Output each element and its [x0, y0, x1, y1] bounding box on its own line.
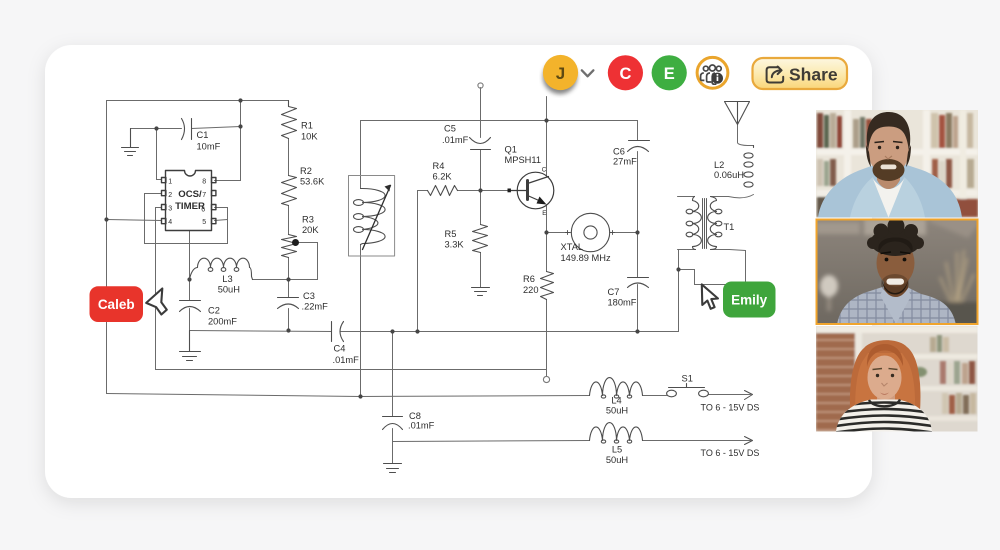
svg-text:C2: C2 [208, 306, 220, 316]
wire C5 bottom [480, 150, 482, 191]
wire L5 arrow line [643, 440, 751, 442]
avatar J shadow [543, 60, 577, 94]
svg-text:TO 6 - 15V DS: TO 6 - 15V DS [701, 448, 760, 458]
wire R1-R2 [288, 139, 290, 176]
svg-text:53.6K: 53.6K [300, 177, 325, 187]
ground near R5 [472, 288, 490, 296]
whiteboard card [45, 45, 872, 498]
svg-text:C5: C5 [444, 124, 456, 134]
svg-text:Emily: Emily [731, 293, 768, 308]
wire top rail [107, 100, 289, 102]
node junction 5 [187, 277, 191, 281]
wire collector [546, 97, 548, 176]
crystal XTAL [571, 213, 609, 251]
resistor R5 [473, 225, 488, 253]
svg-text:220: 220 [523, 285, 539, 295]
svg-text:C4: C4 [334, 344, 346, 354]
wire R3-C3 [288, 258, 290, 298]
wire T1 to L2 [729, 195, 754, 198]
svg-text:C: C [619, 65, 631, 83]
wire T1 left drop [678, 250, 680, 332]
transformer T1 right winding [708, 197, 717, 250]
transistor Q1 [508, 172, 554, 209]
svg-text:2: 2 [168, 192, 172, 199]
svg-text:C6: C6 [613, 147, 625, 157]
wire to terminal [546, 370, 548, 377]
node junction 3 [238, 124, 242, 128]
svg-text:E: E [542, 210, 546, 217]
wire mid rail left [190, 331, 332, 332]
svg-text:Share: Share [789, 65, 838, 85]
resistor R2 [282, 176, 297, 206]
svg-text:C1: C1 [197, 130, 209, 140]
name tag Caleb [90, 286, 144, 322]
resistor R4 [428, 186, 458, 196]
node junction 16 [478, 188, 482, 192]
ground near C1 [122, 129, 139, 156]
svg-text:50uH: 50uH [606, 406, 628, 416]
wire L4 to S1 [643, 395, 667, 397]
svg-text:1: 1 [168, 179, 172, 186]
resistor R1 [282, 101, 297, 139]
ground near C2 [180, 331, 201, 361]
node junction 10 [635, 329, 639, 333]
svg-text:XTAL: XTAL [561, 242, 584, 252]
svg-text:R5: R5 [445, 229, 457, 239]
node junction 9 [415, 329, 419, 333]
capacitor C1 [182, 119, 192, 140]
node junction 7 [286, 328, 290, 332]
inductor L3 [190, 258, 253, 279]
wire C1 right [192, 127, 241, 129]
svg-text:50uH: 50uH [218, 285, 240, 295]
wire to R6 [546, 233, 548, 272]
wire L1 bottom lead [360, 245, 362, 397]
wire T1 right bottom lead [711, 250, 746, 251]
video tile 2 (man, plaid shirt) [816, 218, 980, 327]
svg-text:MPSH11: MPSH11 [505, 155, 542, 165]
svg-text:C3: C3 [303, 291, 315, 301]
node junction 15 [358, 394, 362, 398]
share button [753, 58, 848, 89]
wire C1 left [131, 128, 182, 130]
svg-text:149.89 MHz: 149.89 MHz [561, 253, 611, 263]
svg-text:6.2K: 6.2K [433, 172, 453, 182]
svg-text:J: J [556, 64, 565, 83]
svg-text:E: E [664, 65, 675, 83]
node junction 4 [104, 217, 108, 221]
wire C6 top [637, 121, 639, 141]
wire pin 5 [215, 220, 228, 221]
wire C8 to L5 [393, 441, 590, 442]
svg-text:0.06uH: 0.06uH [714, 170, 744, 180]
svg-text:L2: L2 [714, 160, 724, 170]
wire C3 stem [288, 309, 290, 331]
wire pin 3 rail [156, 208, 547, 370]
switch S1 [667, 390, 677, 397]
wire to pin 8 [215, 101, 241, 181]
video tile 3 (woman, striped top) [816, 326, 978, 433]
wire C6-C7 [637, 152, 639, 278]
svg-text:Q1: Q1 [505, 145, 517, 155]
open terminal above C5 [478, 83, 483, 88]
node junction 12 [635, 230, 639, 234]
node junction 14 [676, 267, 680, 271]
transformer T1 left winding [693, 197, 702, 250]
wire L1 top lead [360, 121, 362, 189]
collaborator info icon [697, 57, 728, 88]
wire C8 ground stem [392, 429, 394, 464]
inductor L5 [590, 423, 643, 441]
node junction 11 [544, 230, 548, 234]
wire left rail [106, 101, 108, 394]
wire inner top rail [361, 120, 638, 122]
inductor L2 [753, 146, 755, 148]
resistor R3 [282, 235, 297, 258]
svg-text:50uH: 50uH [606, 455, 628, 465]
wire to XTAL left [547, 232, 572, 234]
avatar J [543, 55, 578, 90]
capacitor C5 [470, 138, 491, 150]
svg-text:20K: 20K [302, 225, 319, 235]
wire T1 secondary loop [679, 251, 746, 285]
svg-text:OCS/: OCS/ [178, 189, 202, 200]
IC U1 OCS/TIMER body [162, 171, 216, 231]
svg-text:.22mF: .22mF [302, 302, 329, 312]
wire C7 stem [637, 285, 639, 332]
wire R3 wiper loop [289, 243, 318, 280]
wire emitter [546, 206, 548, 233]
node junction 2 [154, 126, 158, 130]
svg-text:3.3K: 3.3K [445, 240, 465, 250]
node junction 8 [390, 329, 394, 333]
wire to R5 [480, 191, 482, 225]
capacitor C3 [278, 298, 299, 309]
wire T1 left top stub [678, 196, 695, 198]
svg-text:200mF: 200mF [208, 317, 237, 327]
capacitor C2 [180, 301, 201, 312]
svg-text:.01mF: .01mF [333, 355, 360, 365]
variable inductor L1 shield box [349, 176, 395, 257]
svg-text:.01mF: .01mF [408, 421, 435, 431]
node junction 6 [286, 277, 290, 281]
wire R4 left lead [418, 190, 428, 192]
inductor L4 [590, 378, 643, 396]
variable inductor L1 arrow [363, 186, 391, 250]
capacitor C4 [332, 322, 344, 342]
wire L3 to R3 node [253, 279, 289, 281]
svg-text:5: 5 [202, 219, 206, 226]
avatar C [608, 55, 643, 90]
svg-text:R4: R4 [433, 161, 445, 171]
svg-text:6: 6 [201, 207, 205, 214]
capacitor C8 [383, 417, 403, 430]
resistor R6 [541, 272, 554, 300]
wire T1 right top lead [711, 196, 729, 198]
transformer T1 core [703, 199, 707, 249]
svg-text:R3: R3 [302, 215, 314, 225]
wire to C8 [392, 332, 394, 417]
wire R4 to base [458, 190, 511, 192]
avatar dropdown chevron [582, 70, 594, 76]
svg-text:3: 3 [168, 206, 172, 213]
svg-text:R6: R6 [523, 274, 535, 284]
svg-text:8: 8 [202, 179, 206, 186]
node junction 1 [238, 98, 242, 102]
svg-text:C: C [542, 167, 547, 174]
svg-text:R2: R2 [300, 166, 312, 176]
video tile 2 highlight border [817, 220, 978, 325]
wire XTAL right [611, 232, 638, 234]
svg-text:C8: C8 [409, 411, 421, 421]
arrow to supply L4 row [745, 391, 753, 400]
wire L3 to C2 [189, 280, 191, 301]
wire to pin 1 [157, 129, 162, 180]
svg-text:27mF: 27mF [613, 157, 637, 167]
svg-text:.01mF: .01mF [442, 135, 469, 145]
wire R6 down [546, 300, 548, 370]
wire R2-R3 [288, 206, 290, 235]
wire R5 to ground [480, 253, 482, 288]
variable inductor L1 coil [361, 189, 386, 245]
svg-text:4: 4 [168, 219, 172, 226]
svg-text:R1: R1 [301, 121, 313, 131]
svg-text:TO 6 - 15V DS: TO 6 - 15V DS [701, 403, 760, 413]
wire pin 4 [107, 220, 162, 221]
video tile 1 (man, blue shirt, bookshelf) [816, 110, 978, 218]
wire antenna to L2 [738, 125, 754, 146]
wire R4 drop [417, 191, 419, 332]
node junction 13 [544, 118, 548, 122]
svg-text:180mF: 180mF [608, 298, 637, 308]
capacitor C7 [628, 278, 649, 288]
open terminal below R6 [543, 376, 549, 382]
wire S1 arrow line [709, 394, 751, 396]
wire C2 stem [189, 309, 191, 331]
svg-text:10K: 10K [301, 132, 318, 142]
wire IC ground stub [189, 231, 191, 280]
cursor Caleb [146, 289, 167, 315]
wire T1 left bottom lead [678, 249, 696, 251]
arrow to supply L5 row [745, 437, 753, 445]
svg-text:L4: L4 [611, 396, 621, 406]
cursor Emily [702, 284, 718, 308]
wire C5 top [480, 88, 482, 138]
svg-text:T1: T1 [724, 222, 735, 232]
ground near C8 [384, 464, 402, 473]
svg-text:Caleb: Caleb [98, 297, 135, 312]
name tag Emily [723, 282, 776, 318]
svg-text:S1: S1 [682, 374, 693, 384]
antenna [725, 102, 750, 125]
svg-text:C7: C7 [608, 287, 620, 297]
svg-text:L5: L5 [612, 445, 622, 455]
svg-text:10mF: 10mF [197, 142, 221, 152]
svg-text:L3: L3 [222, 274, 232, 284]
R3 wiper dot [292, 239, 299, 246]
capacitor C6 [628, 141, 650, 152]
avatar E [652, 55, 687, 90]
wire bottom rail [107, 394, 590, 397]
wire pin 2 to pin 6 [145, 194, 228, 244]
svg-text:7: 7 [202, 192, 206, 199]
wire mid rail right [341, 331, 679, 333]
